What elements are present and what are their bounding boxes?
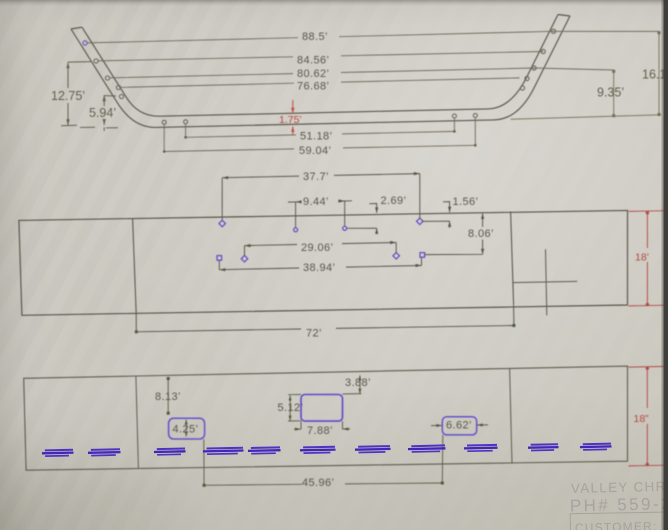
hash mark group 5 [251,446,280,449]
svg-text:5.94’: 5.94’ [89,106,116,120]
center mark cross [512,249,577,315]
svg-text:2.69’: 2.69’ [381,195,407,207]
svg-text:59.04’: 59.04’ [299,145,331,157]
svg-text:45.96’: 45.96’ [302,477,334,489]
dimension line 80.62 [110,68,614,78]
dim 37.7 extension right [419,174,421,219]
blue label box 6.62 [442,417,476,435]
svg-text:VALLEY CHRO: VALLEY CHRO [571,479,668,496]
svg-text:4.25’: 4.25’ [173,424,199,436]
svg-text:1.56’: 1.56’ [453,196,479,208]
hole H6 [241,255,248,262]
hole H2 [294,228,298,232]
left bar hole T3 [105,76,109,80]
svg-text:37.7’: 37.7’ [303,171,329,183]
extension below 4.25 box [203,439,205,485]
svg-text:12.75’: 12.75’ [51,89,85,103]
underside outline rectangle [24,366,628,470]
left end divider [133,219,137,314]
left bar hole T4 [116,85,120,89]
left bar hole T1 (blue) [83,41,87,45]
dimension line 88.5 [87,31,659,43]
dim 29.06 extension right [395,243,397,254]
joint dots for 51.18 / 59.04 [163,130,477,153]
svg-text:CUSTOMER:: CUSTOMER: [575,519,658,530]
6.62 side arrows [431,424,488,427]
hash mark group 4 [207,447,243,450]
right bar hole T7 [541,49,545,53]
bumper inner edge [82,15,558,117]
hash mark group 10 [531,443,558,446]
photo top edge shading [0,0,668,6]
dim 8.13 line [167,378,169,413]
svg-text:9.35’: 9.35’ [597,86,624,100]
svg-text:72’: 72’ [306,328,322,340]
hole H7 [393,253,400,260]
customer box [570,512,668,530]
51.18 extension drop right [453,118,455,131]
svg-text:9.44’: 9.44’ [303,196,329,208]
blue label box 4.25 [169,418,205,439]
dim 7.88 [294,421,350,429]
svg-text:29.06’: 29.06’ [301,242,333,254]
right tip end cap [558,15,570,17]
svg-text:51.18’: 51.18’ [300,131,332,143]
dim 2.69 bracket and leaders [347,204,377,235]
bottom flat hole B2 [184,120,188,124]
dimension 5.94 vertical [80,95,118,131]
dim 9.44 line [288,201,352,202]
svg-text:6.62’: 6.62’ [446,420,472,432]
4.25 inner arrow line [185,420,187,437]
svg-text:18’: 18’ [635,252,649,264]
hash mark group 1 [45,449,73,452]
hash mark group 7 [358,445,390,448]
face outline rectangle [19,210,628,315]
svg-text:1.75’: 1.75’ [279,114,302,126]
bottom reference line extension to right [511,115,662,120]
hole H8 [420,253,425,258]
red dimension 1.75 [292,100,294,135]
red dim 18 (bottom view) [629,366,668,466]
59.04 dimension line [164,145,475,151]
dim 37.7 line [222,174,420,178]
svg-text:3.88’: 3.88’ [345,377,371,389]
dimension line 76.68 [121,78,520,88]
right bar hole T10 [520,86,524,90]
hash mark group 6 [303,446,335,449]
dim 29.06 extension left [244,246,246,257]
hole H3 [343,226,347,230]
bottom flat hole B4 [473,114,477,118]
59.04 extension drop left [163,125,165,152]
hash mark group 8 [411,444,445,447]
right bar hole T9 [525,76,529,80]
dimension 16.1 vertical [658,33,660,115]
svg-text:84.56’: 84.56’ [297,55,329,67]
hash mark group 2 [91,448,120,451]
bumper outer edge (left tip, bottom flat, right tip) [71,16,570,127]
left tip end cap [71,27,82,29]
dimension 12.75 vertical [61,62,92,126]
right bar hole T6 [551,29,555,33]
dim 37.7 extension left [221,178,223,220]
svg-text:8.13’: 8.13’ [155,391,181,403]
dim 38.94 extension right [421,257,423,265]
51.18 extension drop left [185,124,187,137]
middle view arrowheads [219,172,484,271]
svg-text:5.12’: 5.12’ [278,402,304,414]
svg-text:18”: 18” [634,413,650,425]
dim 72 line [136,326,514,332]
hash mark group 11 [583,443,611,446]
5.94 arrowheads [103,95,106,125]
12.75 arrowheads [66,62,69,125]
dim 38.94 extension left [218,260,220,269]
dim 9.44 extension left [295,202,297,228]
bottom flat hole B1 [162,120,166,124]
hash mark group 9 [467,444,497,447]
hash mark group 3 [157,448,185,451]
extension below 6.62 box [441,435,444,483]
dimension 9.35 vertical [613,71,615,116]
svg-text:88.5’: 88.5’ [302,31,328,43]
dim 8.06 line [425,213,483,254]
59.04 extension drop right [474,118,476,146]
dim 3.88 line [343,375,362,394]
dim 29.06 line [245,243,397,246]
svg-text:8.06’: 8.06’ [468,228,494,240]
red dim 18 (middle view) [629,211,668,306]
svg-text:80.62’: 80.62’ [297,68,329,80]
dim 38.94 line [219,266,421,270]
hole H5 [217,256,222,261]
51.18 dimension line [186,131,455,137]
dim 5.12 [288,395,301,422]
dimension line 84.56 [98,52,543,61]
left bar hole T2 [94,59,98,63]
left end divider [136,376,139,468]
right bar hole T8 [532,66,536,70]
hole H4 [417,218,424,225]
right end divider [511,212,514,305]
photo right edge dark band [664,0,668,530]
dim 9.44 extension right [344,201,346,226]
hole H1 [219,220,226,227]
left bar hole T5 [119,94,123,98]
svg-text:38.94’: 38.94’ [303,262,335,274]
right end divider [510,368,512,463]
svg-text:7.88’: 7.88’ [307,425,333,437]
dim 72 extensions [136,305,514,332]
bottom flat hole B3 [452,114,456,118]
license plate cutout (blue) [301,395,343,422]
dim 45.96 line [204,483,442,485]
svg-text:76.68’: 76.68’ [297,81,329,93]
dim 1.56 bracket and leaders [422,202,450,228]
